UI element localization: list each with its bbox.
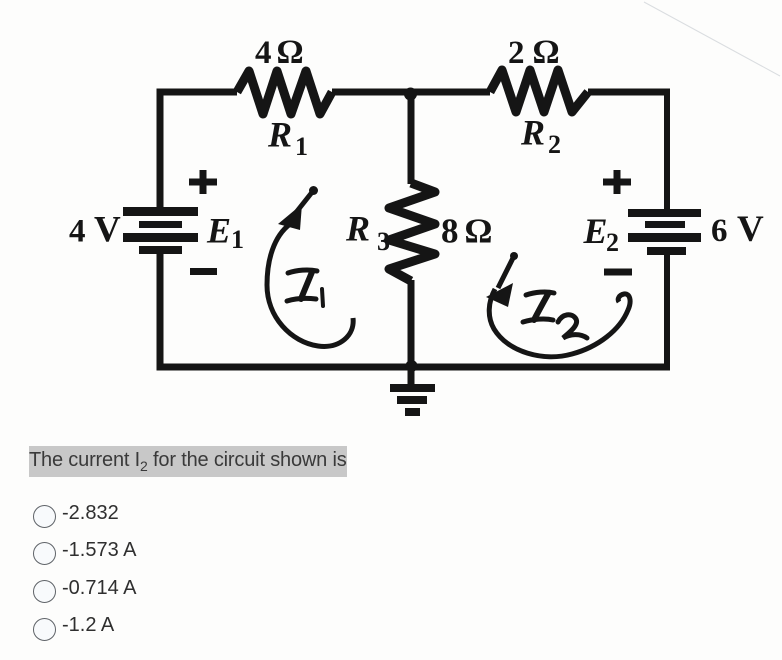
svg-text:1: 1 xyxy=(295,132,308,161)
option 1 xyxy=(33,505,56,528)
ground xyxy=(390,367,435,416)
loop I1 arrowhead xyxy=(278,204,302,230)
battery E2 plates xyxy=(628,209,701,255)
svg-text:4: 4 xyxy=(69,214,86,250)
svg-text:4: 4 xyxy=(255,35,272,71)
scan artifact diagonal line xyxy=(644,2,780,76)
svg-text:3: 3 xyxy=(377,227,390,256)
wire left vertical lower xyxy=(157,252,164,369)
svg-text:E: E xyxy=(583,211,608,251)
svg-text:2: 2 xyxy=(548,130,561,159)
wire right vertical upper xyxy=(664,89,670,211)
wire R3 top lead xyxy=(408,92,415,184)
wire bottom xyxy=(157,364,671,371)
resistor R1 xyxy=(237,71,332,114)
option 3 xyxy=(33,580,56,603)
loop I1 arc xyxy=(267,222,353,346)
svg-text:8: 8 xyxy=(441,212,459,251)
svg-text:2: 2 xyxy=(508,35,525,71)
loop I1 arrow tail xyxy=(294,191,313,215)
svg-text:Ω: Ω xyxy=(533,34,559,71)
minus sign E2 xyxy=(604,269,632,276)
svg-text:R: R xyxy=(520,113,545,153)
loop I2 arc xyxy=(489,289,630,357)
plus sign E2 xyxy=(603,170,631,194)
node A (top junction) xyxy=(404,88,417,101)
battery E1 plates xyxy=(123,207,198,254)
wire top-left segment xyxy=(160,89,237,96)
wire right vertical lower xyxy=(664,254,670,369)
svg-text:1: 1 xyxy=(231,225,244,254)
loop I2 arrowhead xyxy=(486,283,513,307)
svg-text:6: 6 xyxy=(711,213,728,249)
svg-text:2: 2 xyxy=(606,228,619,257)
svg-text:E: E xyxy=(206,211,231,251)
wire R3 bottom lead xyxy=(408,280,415,367)
svg-text:Ω: Ω xyxy=(277,34,303,71)
label I2 (handwritten) xyxy=(523,292,587,338)
svg-text:R: R xyxy=(345,209,370,249)
resistor R2 xyxy=(490,70,588,112)
svg-text:R: R xyxy=(267,115,292,155)
question text xyxy=(29,446,347,477)
wire top-middle segment xyxy=(332,89,490,96)
svg-text:V: V xyxy=(737,209,764,250)
plus sign E1 xyxy=(189,170,217,194)
wire top-right segment xyxy=(588,89,667,96)
option 2 xyxy=(33,542,56,565)
svg-text:V: V xyxy=(94,210,121,251)
minus sign E1 xyxy=(190,268,217,275)
option 4 xyxy=(33,618,56,641)
loop I2 arrow tail xyxy=(498,256,514,288)
svg-text:Ω: Ω xyxy=(465,212,492,251)
wire left vertical upper xyxy=(157,89,164,209)
label I1 (handwritten) xyxy=(287,270,323,306)
resistor R3 xyxy=(389,183,435,281)
node B (bottom junction) xyxy=(406,360,418,372)
